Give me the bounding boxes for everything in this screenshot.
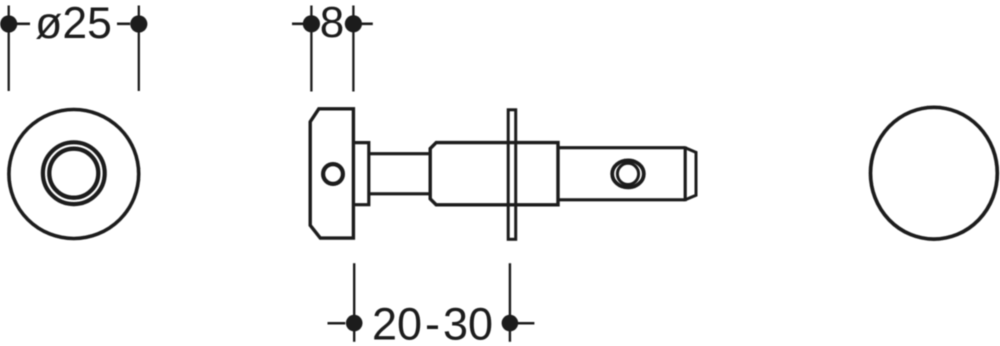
bolt hole inner circle bbox=[617, 163, 638, 184]
bolt bottom line bbox=[558, 198, 685, 201]
dimension 8 tick right bbox=[360, 22, 373, 25]
dimension ø25 extension line right bbox=[138, 6, 140, 92]
dimension 8 extension line right bbox=[352, 6, 354, 92]
mounting plate bbox=[508, 110, 516, 240]
dimension 20-30 extension line left bbox=[353, 263, 355, 342]
dimension ø25 dot right bbox=[130, 15, 147, 32]
side view cylinder body bbox=[430, 143, 558, 205]
dimension ø25 tick left bbox=[17, 22, 30, 25]
side view knob head bbox=[310, 109, 353, 238]
svg-text:ø25: ø25 bbox=[35, 0, 112, 48]
front view outer circle bbox=[9, 110, 139, 239]
dimension 20-30 dot right bbox=[502, 315, 519, 332]
dimension 8 dot right bbox=[345, 15, 362, 32]
svg-text:8: 8 bbox=[320, 0, 344, 47]
dimension 20-30 dot left bbox=[346, 315, 363, 332]
front view ring inner circle bbox=[49, 149, 98, 198]
bolt top line bbox=[558, 146, 685, 149]
dimension 8 extension line left bbox=[310, 6, 312, 92]
side view head screw hole bbox=[323, 164, 343, 184]
dimension ø25 dot left bbox=[0, 15, 17, 32]
side view collar bbox=[353, 143, 368, 205]
side view stem top line bbox=[369, 152, 430, 155]
front view ring outer circle bbox=[43, 142, 105, 204]
side view stem bottom line bbox=[369, 192, 430, 195]
dimension 8 dot left bbox=[303, 15, 320, 32]
dimension ø25 tick right bbox=[117, 22, 130, 25]
dimension 20-30 tick left bbox=[328, 322, 346, 325]
dimension 20-30 extension line right bbox=[509, 263, 511, 342]
dimension ø25 extension line left bbox=[8, 6, 10, 92]
bolt hole outer ellipse bbox=[612, 160, 644, 187]
dimension 20-30 tick right bbox=[517, 322, 535, 325]
rear view circle bbox=[871, 107, 998, 239]
bolt end line bbox=[684, 146, 687, 201]
dimension 8 tick left bbox=[292, 22, 305, 25]
svg-text:20-30: 20-30 bbox=[372, 299, 493, 346]
bolt tip bbox=[685, 148, 696, 200]
